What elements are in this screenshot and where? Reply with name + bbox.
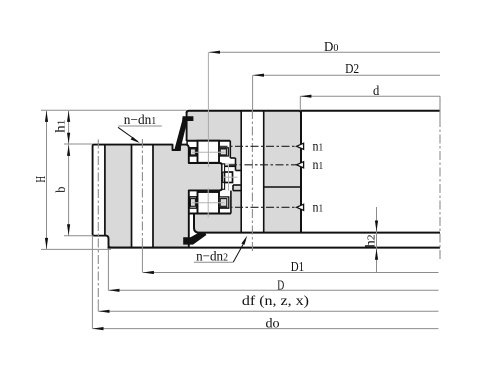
svg-text:b: b — [54, 187, 69, 193]
lower cage top line — [189, 196, 198, 198]
radial roller — [225, 172, 233, 183]
extension line tooth end face — [64, 235, 93, 237]
upper row left cage pocket — [190, 149, 195, 155]
upper row right cage — [219, 148, 228, 156]
radial raceway recess — [231, 171, 241, 214]
inner ring body with tongue (section outline) — [93, 145, 222, 248]
leader line n-dn2 — [233, 236, 247, 263]
grease duct line n1 lower — [220, 206, 298, 208]
dimension line df — [98, 310, 438, 312]
arrow h2 top — [375, 221, 378, 232]
svg-text:D0: D0 — [324, 40, 339, 55]
raceway centerline D0 extension — [207, 52, 209, 167]
outer ring split line — [264, 186, 301, 188]
dimension line D — [108, 249, 438, 290]
upper row right cage pocket — [220, 149, 226, 155]
lower row left cage — [190, 197, 197, 208]
inner ring bottom face extended — [108, 247, 441, 249]
grease duct line n1 upper — [220, 145, 298, 147]
dimension line h2 — [376, 207, 378, 272]
bolt hole dn2 centerline — [251, 75, 253, 252]
outer ring upper half (section fill) — [187, 111, 301, 187]
arrow D — [108, 289, 119, 292]
seal groove edge — [186, 141, 188, 145]
cavity channel — [228, 158, 235, 166]
arrow df — [98, 310, 109, 313]
svg-text:D: D — [277, 278, 284, 293]
outer ring top face edge — [187, 111, 301, 113]
arrow d — [300, 95, 311, 98]
outer ring bore edge (right) — [300, 112, 302, 233]
dimension line b — [68, 145, 70, 236]
arrow D0 — [209, 51, 220, 54]
arrow h2 bottom — [375, 249, 378, 260]
arrow D2 — [253, 74, 264, 77]
lower raceway line — [189, 213, 231, 215]
mounting surface line top right — [301, 110, 440, 112]
bolt hole dn1 left edge — [131, 145, 133, 248]
arrow h1 bottom — [67, 133, 70, 144]
svg-text:D1: D1 — [291, 260, 304, 275]
extension line bottom face — [41, 248, 111, 250]
radial roller cavity — [222, 164, 241, 191]
svg-text:H: H — [34, 176, 49, 183]
grease duct line n1 middle — [229, 164, 297, 166]
bolt hole dn1 bore (white band) — [132, 146, 152, 247]
gear pitch centerline — [97, 140, 99, 312]
upper axial roller — [198, 141, 220, 163]
upper raceway line — [187, 140, 231, 142]
arrow D1 — [143, 271, 154, 274]
outer ring lower half (section fill) — [194, 187, 301, 233]
upper roller cavity — [187, 141, 231, 163]
arrow H top — [45, 111, 48, 122]
leader line n-dn1 — [118, 127, 140, 143]
svg-text:df (n, z, x): df (n, z, x) — [242, 294, 309, 309]
svg-text:n1: n1 — [313, 158, 324, 173]
dimension line h1 — [68, 111, 70, 144]
svg-text:n1: n1 — [313, 139, 324, 154]
arrow H bottom — [45, 238, 48, 249]
tongue end rim upper — [222, 164, 225, 172]
arrow h1 top — [67, 111, 70, 122]
dimension line D2 — [253, 74, 440, 76]
label n-dn2 — [194, 250, 233, 265]
svg-text:D2: D2 — [345, 62, 359, 77]
label n-dn1 — [118, 113, 162, 128]
outer ring bottom face extended — [301, 232, 440, 234]
lower row right cage — [219, 197, 229, 208]
grease nipple symbol n1 upper — [297, 143, 304, 149]
upper row left cage — [190, 148, 197, 156]
bolt hole dn2 left edge — [240, 111, 242, 233]
extension line top face — [41, 109, 187, 111]
grease nipple symbol n1 middle — [297, 162, 304, 168]
lower roller vertical centerline — [207, 188, 209, 218]
gap between rings lower left — [189, 214, 194, 247]
outer ring retaining lip — [225, 163, 236, 166]
outer ring bottom face edge — [194, 214, 301, 233]
arrow b bottom — [67, 224, 70, 235]
radial roller vertical centerline — [228, 165, 230, 191]
retaining lip bottom line — [225, 165, 236, 167]
gear tooth band — [94, 146, 104, 235]
lower row left cage pocket — [190, 199, 195, 207]
tongue end rim lower — [222, 182, 225, 189]
upper seal — [174, 116, 193, 150]
dimension line H — [46, 111, 48, 250]
lower roller cavity — [189, 191, 231, 214]
radial roller horizontal centerline — [223, 176, 238, 178]
lower axial roller — [198, 192, 220, 214]
arrow b top — [67, 145, 70, 156]
svg-text:do: do — [266, 316, 280, 331]
dimension line do — [92, 236, 438, 329]
lower seal — [183, 232, 206, 245]
lower roller horizontal centerline — [192, 202, 225, 204]
bearing axis centerline — [439, 96, 441, 261]
bolt hole dn2 right edge — [263, 111, 265, 233]
svg-text:h2: h2 — [364, 234, 379, 247]
bolt hole dn2 bore (white band) — [241, 111, 264, 233]
dimension line D1 — [143, 272, 439, 274]
gear root line — [104, 145, 106, 235]
svg-text:h1: h1 — [53, 120, 68, 133]
dimension line D0 — [209, 51, 440, 53]
extension line inner ring top — [64, 143, 93, 145]
arrow do — [92, 327, 103, 330]
svg-text:n1: n1 — [313, 200, 324, 215]
grease nipple symbol n1 lower — [297, 204, 304, 210]
upper cavity right boundary — [230, 141, 235, 171]
svg-text:d: d — [373, 84, 379, 99]
outer ring left edge — [186, 112, 188, 141]
bolt hole dn1 right edge — [152, 145, 154, 248]
lower row right cage pocket — [220, 199, 227, 207]
upper roller horizontal centerline — [192, 151, 225, 153]
upper cage top line — [189, 147, 198, 149]
bolt hole dn1 centerline — [141, 139, 143, 273]
dimension line d — [300, 96, 440, 110]
